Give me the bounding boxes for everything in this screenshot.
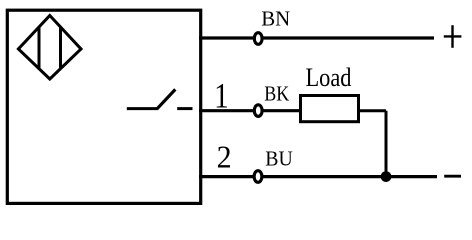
svg-text:BN: BN xyxy=(261,6,290,30)
svg-text:BU: BU xyxy=(265,146,293,170)
svg-text:Load: Load xyxy=(306,63,352,92)
svg-text:BK: BK xyxy=(264,81,289,105)
svg-text:2: 2 xyxy=(217,138,232,174)
svg-text:1: 1 xyxy=(214,77,229,116)
